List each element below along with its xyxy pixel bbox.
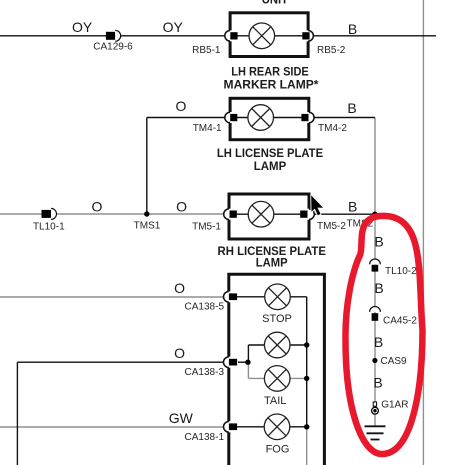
svg-text:B: B bbox=[374, 280, 383, 296]
svg-text:B: B bbox=[347, 100, 356, 116]
svg-text:LH LICENSE PLATE: LH LICENSE PLATE bbox=[217, 146, 323, 160]
svg-text:O: O bbox=[174, 280, 185, 296]
svg-text:TMS1: TMS1 bbox=[134, 220, 161, 231]
svg-text:CA138-1: CA138-1 bbox=[185, 432, 225, 443]
svg-text:O: O bbox=[174, 345, 185, 361]
svg-text:TL10-2: TL10-2 bbox=[385, 266, 417, 277]
svg-text:TM4-2: TM4-2 bbox=[318, 123, 347, 134]
svg-text:OY: OY bbox=[72, 19, 93, 35]
svg-text:CA129-6: CA129-6 bbox=[93, 42, 133, 53]
svg-text:B: B bbox=[348, 21, 357, 37]
svg-text:FOG: FOG bbox=[266, 444, 290, 456]
svg-text:TM5-2: TM5-2 bbox=[317, 221, 346, 232]
svg-text:B: B bbox=[373, 375, 382, 391]
svg-text:MARKER LAMP*: MARKER LAMP* bbox=[224, 78, 319, 92]
svg-text:LAMP: LAMP bbox=[254, 159, 286, 173]
svg-text:CA138-5: CA138-5 bbox=[185, 301, 225, 312]
svg-text:TM5-1: TM5-1 bbox=[192, 221, 221, 232]
svg-text:STOP: STOP bbox=[262, 313, 292, 325]
svg-text:O: O bbox=[92, 198, 103, 214]
svg-text:G1AR: G1AR bbox=[381, 400, 408, 411]
svg-text:GW: GW bbox=[169, 410, 194, 426]
svg-text:RB5-1: RB5-1 bbox=[192, 45, 221, 56]
svg-text:B: B bbox=[348, 199, 357, 215]
svg-text:B: B bbox=[374, 234, 383, 250]
svg-text:TM4-1: TM4-1 bbox=[193, 123, 222, 134]
svg-text:UNIT: UNIT bbox=[262, 0, 289, 7]
svg-text:TAIL: TAIL bbox=[264, 395, 286, 407]
svg-text:TL10-1: TL10-1 bbox=[33, 222, 65, 233]
svg-text:CA138-3: CA138-3 bbox=[185, 367, 225, 378]
svg-text:CA45-2: CA45-2 bbox=[383, 315, 417, 326]
svg-text:O: O bbox=[176, 98, 187, 114]
svg-text:CAS9: CAS9 bbox=[381, 356, 408, 367]
svg-text:OY: OY bbox=[163, 19, 184, 35]
svg-text:B: B bbox=[374, 334, 383, 350]
svg-text:O: O bbox=[176, 199, 187, 215]
svg-text:RB5-2: RB5-2 bbox=[317, 45, 346, 56]
svg-text:LH REAR SIDE: LH REAR SIDE bbox=[231, 65, 309, 79]
svg-text:LAMP: LAMP bbox=[256, 256, 288, 270]
